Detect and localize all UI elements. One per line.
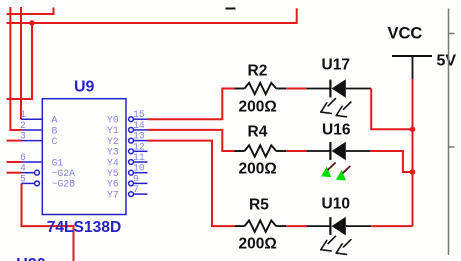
LED U10 [307,196,372,236]
svg-text:200Ω: 200Ω [239,236,277,253]
svg-text:10: 10 [133,163,145,174]
svg-text:3: 3 [20,131,26,142]
svg-text:B: B [52,125,58,136]
svg-text:1: 1 [20,109,26,120]
U16 emission arrows (green lit) [321,163,350,181]
pin 7 Y7 [129,192,134,197]
wire R2 to U17 [286,88,307,90]
pin 9 Y6 [129,181,134,186]
wire Y1 to R4 [148,130,236,151]
wire vertical to pin2 [10,7,21,130]
svg-text:9: 9 [133,173,139,184]
svg-text:Y5: Y5 [107,168,119,179]
wire pin5 down to bottom edge [22,183,74,261]
wire pin6 stub [7,161,22,163]
resistor R5 [235,197,286,253]
svg-text:Y1: Y1 [107,125,119,136]
wire vertical stub to pin1 net [20,7,22,119]
svg-text:U9: U9 [74,79,95,96]
wire VCC rail vertical [412,79,414,226]
svg-text:VCC: VCC [388,25,423,43]
svg-text:11: 11 [133,152,145,163]
pin 4 ~G2A with bubble [22,172,35,174]
svg-text:200Ω: 200Ω [239,161,277,178]
svg-text:12: 12 [133,141,145,152]
wire into pin1 [20,118,23,120]
svg-text:Y2: Y2 [107,136,119,147]
svg-text:2: 2 [20,120,26,131]
svg-text:Y7: Y7 [107,189,119,200]
svg-text:13: 13 [133,131,145,142]
resistor R4 [235,124,287,178]
wire Y0 to R2 [148,89,236,120]
pin 15 Y0 [129,117,134,122]
svg-text:7: 7 [133,184,139,195]
svg-text:U16: U16 [322,122,351,139]
pin 2 B [22,129,43,131]
svg-text:200Ω: 200Ω [239,99,277,116]
pin 5 ~G2B with bubble [22,182,35,184]
U17 emission arrows (black open) [321,99,351,117]
grey edge line right [449,9,455,256]
LED U17 [307,57,372,98]
pin 3 C [22,140,43,142]
wire pin4 stub [7,172,22,174]
svg-text:15: 15 [133,109,145,120]
svg-text:A: A [52,115,58,126]
svg-text:R2: R2 [248,63,268,80]
svg-text:Y4: Y4 [107,157,119,168]
svg-text:5: 5 [20,173,26,184]
wire U10 to VCC rail [371,225,412,227]
pin 10 Y5 [129,170,134,175]
svg-text:R5: R5 [249,197,269,214]
pin 6 G1 [22,161,43,163]
black dash top center [226,8,236,10]
svg-text:U17: U17 [322,57,350,74]
wire horizontal top2 [7,8,297,23]
svg-text:5V: 5V [437,53,457,70]
junction dot U17 [410,127,416,133]
wire U17 to VCC rail [371,89,412,130]
svg-text:4: 4 [20,163,26,174]
svg-text:~G2A: ~G2A [52,168,76,179]
svg-text:6: 6 [20,152,26,163]
junction dot top [29,20,35,26]
svg-text:G1: G1 [52,157,64,168]
wire horizontal top1 [7,8,54,15]
pin 11 Y4 [129,160,134,165]
wire R4 to U16 [286,150,307,152]
svg-text:U10: U10 [322,196,350,213]
svg-text:U20: U20 [16,256,45,261]
wire R5 to U10 [286,225,307,227]
resistor R2 [235,63,287,116]
wire from junction down to jog [7,23,33,99]
pin 14 Y1 [129,127,134,132]
wire U16 to VCC rail [370,151,413,172]
wire Y2 to R5 [148,141,236,227]
op-amp U9 box 74LS138D [42,99,126,215]
U10 emission arrows (black open) [321,236,351,254]
pin 12 Y3 [129,149,134,154]
LED U16 [307,122,370,161]
pin 13 Y2 [129,138,134,143]
svg-text:C: C [52,136,58,147]
wire pin3 stub [7,140,22,142]
svg-text:Y0: Y0 [107,115,119,126]
svg-text:Y6: Y6 [107,179,119,190]
junction dot U16 [410,169,416,175]
svg-text:~G2B: ~G2B [52,179,76,190]
svg-text:Y3: Y3 [107,147,119,158]
svg-text:R4: R4 [248,124,268,141]
VCC power symbol [388,25,433,80]
pin 1 A [22,118,43,120]
svg-text:14: 14 [133,120,145,131]
svg-text:74LS138D: 74LS138D [47,219,122,236]
